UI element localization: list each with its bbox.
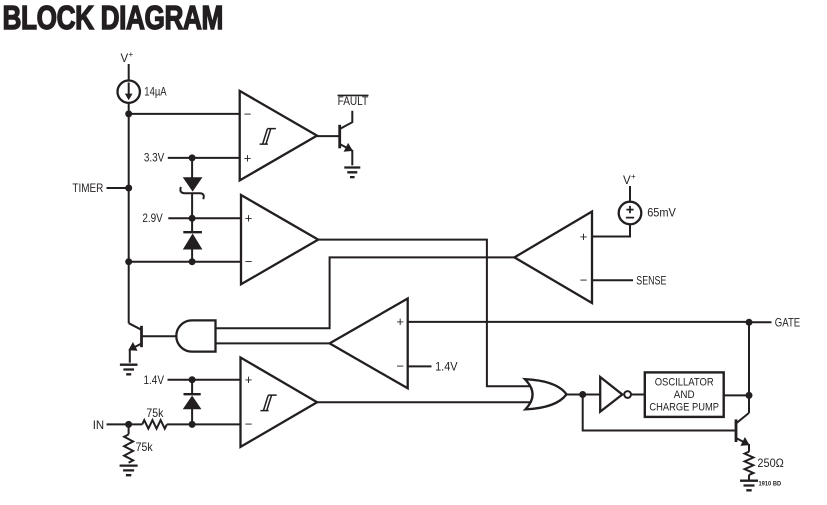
wire OR junction down to Q3 base [583,395,735,431]
wire V+ to 65mV source [629,186,631,202]
svg-text:+: + [580,229,588,244]
svg-text:TIMER: TIMER [72,181,103,195]
node OR output junction dot [579,391,586,398]
wire current source to node A [128,103,130,114]
resistor R1 75k (horizontal) [142,420,167,429]
svg-text:+: + [396,314,404,329]
node IN junction dot [125,421,132,428]
value label 1.4V (U5) [435,359,458,373]
wire OR output to buffer [567,394,601,396]
ground G4 (below R2) [120,466,138,476]
wire IN node down to resistor R2 [128,424,130,434]
svg-text:+: + [245,372,253,387]
AND gate U4 (points left) [176,320,215,351]
wire U2 output to right then down to OR gate top input [318,240,530,387]
wire U5 output to AND gate bottom input [216,342,330,344]
svg-text:GATE: GATE [775,316,800,330]
node 3.3V junction dot [189,154,196,161]
svg-text:IN: IN [93,418,104,432]
ground G3 (below R3) [740,481,758,491]
wire 1.4V node down to diode D3 [191,380,193,395]
wire 1.4V to comparator U6 non-inverting input [168,379,241,381]
wire AND output to Q2 base [142,335,177,337]
svg-text:75k: 75k [136,440,154,454]
wire U5 plus input to GATE rail [408,321,749,323]
svg-text:250Ω: 250Ω [757,456,784,470]
comparator U1 (schmitt, top) [240,91,317,180]
wire 3.3V node down to zener D1 [191,158,193,178]
note label 1910 BD [759,481,782,488]
svg-text:+: + [129,50,134,59]
comparator U2 [241,195,318,284]
svg-text:+: + [244,150,252,165]
wire D1 to D2 through 2.9V node [191,193,193,232]
pin label TIMER [72,181,103,195]
svg-text:−: − [580,273,588,288]
svg-text:BLOCK DIAGRAM: BLOCK DIAGRAM [3,0,224,36]
transistor Q2 (timer reset, faces left) [128,323,141,363]
svg-text:OSCILLATOR: OSCILLATOR [655,377,714,389]
value label 250ohm [757,456,784,470]
wire GATE vertical rail [748,322,750,413]
node V+ (top left) [121,50,134,65]
svg-text:CHARGE PUMP: CHARGE PUMP [649,402,719,414]
value label 3.3V [144,150,164,164]
svg-text:75k: 75k [146,406,164,420]
pin label GATE [775,316,800,330]
value label 75k (R1) [146,406,164,420]
node TIMER junction dot [125,185,132,192]
svg-text:65mV: 65mV [647,206,676,220]
wire IN to resistor R1 [107,423,143,425]
node A junction dot [125,110,132,117]
node 1.4V junction dot [189,376,196,383]
svg-text:+: + [245,211,253,226]
pin label IN [93,418,104,432]
svg-text:−: − [396,359,404,374]
wire TIMER label to rail [107,187,129,189]
voltage source V1 65mV [619,202,642,225]
svg-text:−: − [245,417,253,432]
node 2.9V junction dot [189,215,196,222]
wire U1 output to Q1 base [317,135,340,137]
buffer U8 with bubble [600,377,631,412]
wire oscillator block to GATE rail [724,394,749,396]
value label 14uA [144,84,166,98]
svg-text:−: − [244,106,252,121]
value label 2.9V [142,211,162,225]
wire D3 to U6 minus input line [191,409,193,425]
current source I1 14uA [118,81,140,103]
wire R1 to comparator U6 inverting input [167,423,241,425]
transistor Q1 (FAULT, NPN) [340,111,353,166]
svg-text:1.4V: 1.4V [435,359,458,373]
wire buffer to oscillator block [631,394,645,396]
wire 3.3V to comparator U1 non-inverting input [168,157,240,159]
node TIMER rail junction dot at U2 minus [125,258,132,265]
comparator U6 (schmitt, bottom) [241,358,318,447]
zener diode D1 [180,178,203,199]
comparator U3 (SENSE, points left) [514,212,592,304]
value label 1.4V (U6) [144,373,165,387]
wire U3 plus input to 65mV source [592,224,630,236]
node GATE junction dot [746,319,753,326]
svg-text:V: V [623,175,631,187]
wire U3 output left then down to AND gate top input [216,257,515,328]
node D2 junction dot at U2 minus [189,258,196,265]
wire node A to comparator U1 inverting input [129,113,240,115]
wire U3 minus input to SENSE pin [592,279,633,281]
OR gate U7 [525,379,567,409]
transistor Q3 (output, NPN) [736,413,750,452]
ground G1 (Q1 emitter) [344,168,360,178]
value label 75k (R2) [136,440,154,454]
wire D2 to minus rail of U2 [191,249,193,262]
svg-text:−: − [245,254,253,269]
wire TIMER vertical rail [128,114,130,323]
wire TIMER rail to comparator U2 inverting input [129,261,241,263]
pin label SENSE [636,273,666,287]
svg-text:14µA: 14µA [144,84,166,98]
svg-text:SENSE: SENSE [636,273,666,287]
ground G2 (Q2 emitter) [120,365,138,375]
svg-text:1910 BD: 1910 BD [759,481,782,488]
wire V+ to current source [128,64,130,81]
title BLOCK DIAGRAM [3,0,224,36]
comparator U5 (points left, 1.4V) [330,299,408,389]
node oscillator output junction dot [746,392,753,399]
node V+ (above 65mV source) [623,172,636,187]
svg-text:1.4V: 1.4V [144,373,165,387]
wire U5 minus input to 1.4V label [408,365,432,367]
svg-text:2.9V: 2.9V [142,211,162,225]
resistor R2 75k (vertical) [124,434,133,462]
svg-text:+: + [631,172,636,181]
pin label FAULT with overline [338,94,369,108]
diode D3 [184,394,201,409]
resistor R3 250ohm (vertical) [745,452,754,475]
node R1-D3 junction dot [189,421,196,428]
svg-text:AND: AND [674,389,695,401]
wire U6 output to OR gate bottom input [317,401,530,403]
value label 65mV [647,206,676,220]
block U9 OSCILLATOR AND CHARGE PUMP [645,372,724,417]
wire R3 to ground [748,475,750,481]
svg-text:FAULT: FAULT [338,94,369,108]
wire GATE dot to label [749,321,772,323]
diode D2 [183,232,202,249]
svg-text:V: V [121,53,129,65]
svg-text:3.3V: 3.3V [144,150,164,164]
wire 2.9V to comparator U2 non-inverting input [168,217,241,219]
